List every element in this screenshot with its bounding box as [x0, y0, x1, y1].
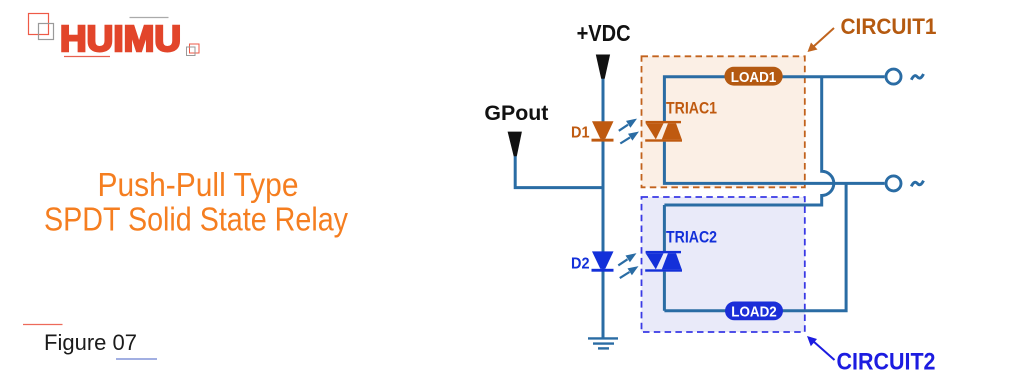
svg-text:LOAD1: LOAD1	[731, 69, 777, 86]
svg-text:CIRCUIT1: CIRCUIT1	[841, 14, 937, 39]
svg-text:D1: D1	[571, 125, 590, 142]
svg-text:Figure 07: Figure 07	[44, 330, 137, 355]
svg-text:Push-Pull Type: Push-Pull Type	[98, 167, 299, 204]
svg-text:D2: D2	[571, 256, 590, 273]
svg-text:+VDC: +VDC	[577, 20, 631, 46]
svg-text:SPDT Solid State Relay: SPDT Solid State Relay	[44, 202, 348, 239]
svg-text:HUIMU: HUIMU	[60, 18, 181, 59]
svg-text:TRIAC2: TRIAC2	[666, 228, 717, 247]
svg-text:TRIAC1: TRIAC1	[666, 99, 717, 118]
svg-text:CIRCUIT2: CIRCUIT2	[837, 349, 936, 376]
svg-text:LOAD2: LOAD2	[731, 304, 777, 321]
svg-text:GPout: GPout	[484, 102, 548, 125]
